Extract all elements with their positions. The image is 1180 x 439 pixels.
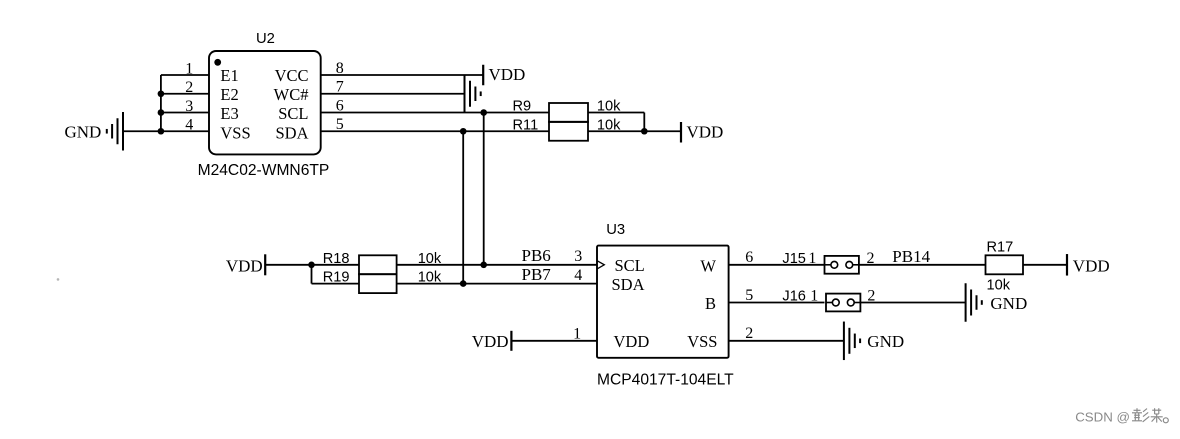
svg-text:J16: J16 [782,289,806,305]
wire R19 out PB7 to U3 SDA [397,283,597,285]
wire R18 out PB6 to U3 SCL [397,264,597,266]
svg-text:PB14: PB14 [892,247,930,266]
svg-text:VSS: VSS [687,332,717,351]
svg-text:PB6: PB6 [522,246,551,265]
wire R9 to R11 vertical [643,113,645,132]
svg-text:SCL: SCL [278,104,308,123]
svg-text:2: 2 [745,325,753,342]
svg-text:MCP4017T-104ELT: MCP4017T-104ELT [597,371,734,388]
wire U2 pin6 SCL to R9 [321,112,549,114]
svg-text:M24C02-WMN6TP: M24C02-WMN6TP [198,162,330,179]
wire J16 to GND [860,302,965,304]
svg-text:6: 6 [745,249,753,266]
svg-text:5: 5 [745,287,753,304]
svg-text:1: 1 [810,288,818,305]
svg-text:4: 4 [574,267,582,284]
ground symbol WC# [465,75,481,114]
svg-text:PB7: PB7 [522,265,552,284]
svg-text:E2: E2 [220,85,238,104]
junction E3 bus [158,109,165,116]
wire U3 pin2 VSS to GND [729,340,844,342]
ground symbol B row [966,283,982,322]
wire R17 to VDD [1023,264,1067,266]
svg-text:VDD: VDD [472,332,509,351]
svg-text:SDA: SDA [275,123,308,142]
svg-text:R17: R17 [987,239,1014,255]
power VDD bar left [264,254,266,275]
junction PB7 column [460,280,467,287]
svg-text:VSS: VSS [220,123,250,142]
wire U2 pin8 VCC to VDD [321,74,484,76]
junction R9/R11 [641,128,648,135]
wire R11 out to VDD [588,130,681,132]
stray faint dot [57,278,60,281]
junction SDA column [460,128,467,135]
svg-text:VDD: VDD [687,123,724,142]
wire SDA vertical to PB7 [462,131,464,283]
ground symbol left [107,112,123,151]
ground symbol VSS row [844,322,860,361]
wire SCL vertical to PB6 [483,113,485,265]
IC U2 body [209,51,321,154]
jumper J16 body [826,294,860,312]
svg-text:W: W [700,256,716,275]
svg-text:U3: U3 [606,222,625,238]
svg-text:E1: E1 [220,66,238,85]
svg-text:J15: J15 [782,251,806,267]
wire J15 to R17 net PB14 [859,264,986,266]
wire left bus vertical E1-E2-E3-VSS [160,75,162,131]
power VDD bar top [482,65,484,86]
svg-text:VDD: VDD [614,332,650,351]
resistor R19 body [359,274,397,293]
wire U3 pin6 W to J15 [729,264,825,266]
svg-text:SCL: SCL [615,256,645,275]
svg-text:E3: E3 [220,104,238,123]
wire U2 pin3 E3 [161,112,209,114]
U3 clock marker on SCL pin [598,261,605,269]
svg-text:VDD: VDD [226,256,263,275]
resistor R11 body [549,122,588,141]
svg-text:CSDN @: CSDN @ [1075,409,1130,424]
svg-text:1: 1 [573,325,581,342]
wire VDD to U3 pin1 [511,340,597,342]
junction E2 bus [158,90,165,97]
wire VDD split vertical [311,265,313,284]
watermark CSDN @pengmou [1075,408,1168,424]
svg-text:WC#: WC# [274,85,309,104]
IC U3 body [597,246,729,358]
svg-text:B: B [705,294,716,313]
junction PB6 column [480,262,487,269]
U2 pin-1 marker dot [214,59,221,66]
wire U2 pin7 WC# to ground [321,93,465,95]
wire VDD to R18 [265,264,359,266]
svg-text:VDD: VDD [1073,256,1110,275]
svg-text:GND: GND [990,294,1027,313]
resistor R9 body [549,103,588,122]
jumper J15 body [825,256,859,274]
svg-text:GND: GND [65,122,102,141]
svg-text:U2: U2 [256,31,275,47]
junction VDD split R18/R19 [308,262,315,269]
wire U2 pin1 E1 [161,74,209,76]
wire U2 pin2 E2 [161,93,209,95]
wire R9 out [588,112,644,114]
svg-text:R9: R9 [513,99,532,115]
svg-text:R19: R19 [323,270,350,286]
junction SCL column [480,109,487,116]
svg-text:VDD: VDD [489,65,526,84]
wire to R19 [312,283,360,285]
power VDD bar U3 pin1 [510,331,512,351]
svg-text:SDA: SDA [612,275,645,294]
svg-text:1: 1 [808,250,816,267]
wire U2 pin5 SDA to R11 [321,130,549,132]
power VDD bar right of R11 [680,122,682,143]
resistor R18 body [359,255,397,274]
junction VSS bus [158,128,165,135]
svg-text:VCC: VCC [275,66,309,85]
resistor R17 body [986,255,1024,274]
svg-text:3: 3 [574,248,582,265]
wire U3 pin5 B to J16 [729,302,825,304]
wire U2 pin4 VSS from GND [123,130,209,132]
svg-text:R18: R18 [323,251,350,267]
svg-text:10k: 10k [987,278,1011,294]
svg-text:GND: GND [867,332,904,351]
power VDD bar far right [1066,254,1068,275]
svg-text:R11: R11 [513,117,539,133]
